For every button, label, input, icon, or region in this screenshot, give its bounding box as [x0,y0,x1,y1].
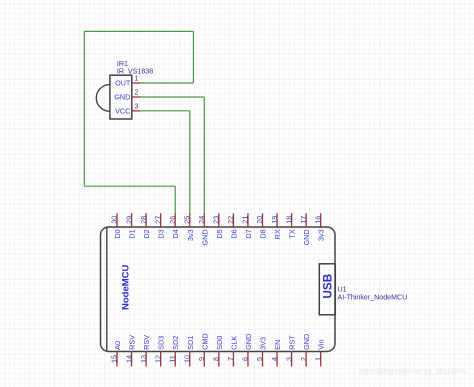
svg-text:1: 1 [313,357,322,361]
svg-text:17: 17 [299,216,308,224]
svg-text:3v3: 3v3 [317,229,326,241]
svg-text:2: 2 [135,90,139,97]
svg-text:11: 11 [168,355,177,362]
svg-text:U1: U1 [338,286,347,294]
svg-text:D8: D8 [259,229,268,238]
svg-text:2: 2 [299,357,308,361]
wire VCC segment (140,110.8)-(189.8,110.8) [140,110,190,112]
svg-text:OUT: OUT [115,79,131,88]
svg-text:9: 9 [197,357,206,361]
svg-text:https://blog.csdn.net/qq_38113: https://blog.csdn.net/qq_38113006 [359,369,466,376]
wire OUT segment (84.3,31.4)-(84.3,186.2) [83,31,85,186]
svg-text:CMD: CMD [200,333,209,350]
svg-text:GND: GND [244,334,253,350]
svg-text:5: 5 [255,357,264,361]
U1 pin 11 (SD2) bottom [168,336,180,367]
svg-text:D1: D1 [128,229,137,238]
svg-text:TX: TX [288,229,297,238]
svg-text:SD1: SD1 [186,336,195,350]
svg-text:SD0: SD0 [215,336,224,350]
svg-text:CLK: CLK [229,336,238,350]
USB connector box [319,264,335,315]
svg-text:8: 8 [212,357,221,361]
svg-text:NodeMCU: NodeMCU [120,264,131,310]
wire OUT segment (193.4,83)-(193.4,31.4) [192,31,194,83]
svg-text:4: 4 [270,357,279,361]
wire GND segment (204.3,97)-(204.3,213.3) to pin GND [203,97,205,213]
svg-text:15: 15 [110,355,119,363]
IR1 pin 3 VCC [115,104,140,116]
U1 pin 29 (D1) top [124,213,136,238]
U1 pin 13 (RSV) bottom [139,335,151,367]
svg-text:29: 29 [124,216,133,224]
U1 pin 23 (D5) top [212,213,224,238]
svg-text:27: 27 [153,216,162,224]
svg-text:EN: EN [273,340,282,350]
U1 pin 17 (GND) top [299,213,311,245]
svg-text:RST: RST [288,335,297,350]
svg-text:20: 20 [255,216,264,224]
svg-text:AI-Thinker_NodeMCU: AI-Thinker_NodeMCU [338,293,408,301]
svg-text:1: 1 [135,76,139,83]
svg-text:GND: GND [302,229,311,245]
svg-text:3: 3 [135,104,139,111]
U1 pin 14 (RSV) bottom [124,335,136,367]
U1 pin 16 (3v3) top [313,213,325,241]
U1 pin 6 (GND) bottom [241,334,253,367]
svg-text:10: 10 [182,355,191,363]
svg-text:13: 13 [139,355,148,363]
svg-text:25: 25 [182,216,191,224]
svg-text:23: 23 [212,216,221,224]
svg-text:3V3: 3V3 [259,337,268,350]
svg-text:22: 22 [226,216,235,224]
svg-text:RSV: RSV [142,335,151,350]
U1 pin 5 (3V3) bottom [255,337,267,367]
U1 pin 2 (GND) bottom [299,334,311,367]
U1 pin 21 (D7) top [241,213,253,238]
svg-text:26: 26 [168,216,177,224]
U1 pin 18 (TX) top [284,213,296,238]
IR receiver IR1 body [110,75,132,119]
svg-text:6: 6 [241,357,250,361]
U1 pin 10 (SD1) bottom [182,336,194,367]
U1 pin 4 (EN) bottom [270,340,282,367]
wire OUT segment (175.2,186.2)-(175.2,213.3) to pin D4 [174,186,176,213]
U1 pin 19 (RX) top [270,213,282,239]
svg-text:RX: RX [273,229,282,239]
U1 pin 25 (3v3) top [182,213,194,241]
svg-text:VCC: VCC [115,106,130,115]
U1 pin 22 (D6) top [226,213,238,238]
wire OUT segment (84.3,186.2)-(175.2,186.2) [84,185,175,187]
svg-text:28: 28 [139,216,148,224]
svg-text:USB: USB [320,274,334,299]
NodeMCU U1 inner left line [106,227,108,351]
svg-text:16: 16 [313,216,322,224]
IR receiver IR1 lens arc [96,85,110,112]
svg-text:14: 14 [124,355,133,363]
svg-text:D5: D5 [215,229,224,238]
svg-text:GND: GND [114,93,130,102]
svg-text:GND: GND [200,229,209,245]
svg-text:3v3: 3v3 [186,229,195,241]
U1 pin 26 (D4) top [168,213,180,238]
U1 pin 24 (GND) top [197,213,209,245]
svg-text:12: 12 [153,355,162,363]
wire GND segment (140,97)-(204.3,97) [140,96,204,98]
svg-text:Vin: Vin [317,339,326,349]
U1 pin 20 (D8) top [255,213,267,238]
svg-text:SD3: SD3 [157,336,166,350]
svg-text:24: 24 [197,216,206,224]
svg-text:RSV: RSV [128,335,137,350]
U1 pin 28 (D2) top [139,213,151,238]
svg-text:30: 30 [110,216,119,224]
U1 pin 27 (D3) top [153,213,165,238]
svg-text:D4: D4 [171,229,180,238]
U1 pin 8 (SD0) bottom [212,336,224,367]
svg-text:A0: A0 [113,341,122,350]
svg-text:19: 19 [270,216,279,224]
svg-text:D0: D0 [113,229,122,238]
U1 pin 15 (A0) bottom [110,341,122,367]
U1 pin 1 (Vin) bottom [313,339,325,366]
U1 pin 12 (SD3) bottom [153,336,165,367]
IR1 pin 2 GND [114,90,140,102]
svg-text:D7: D7 [244,229,253,238]
U1 pin 7 (CLK) bottom [226,336,238,367]
U1 pin 3 (RST) bottom [284,335,296,367]
wire OUT segment (140,83)-(193.4,83) [140,82,193,84]
wire VCC segment (189.8,110.8)-(189.8,213.3) to pin 3v3 [189,111,191,214]
wire OUT segment (193.4,31.4)-(84.3,31.4) [84,30,193,32]
svg-text:GND: GND [302,334,311,350]
svg-text:3: 3 [284,357,293,361]
svg-text:18: 18 [284,216,293,224]
svg-text:7: 7 [226,357,235,361]
svg-text:D3: D3 [157,229,166,238]
svg-text:D6: D6 [229,229,238,238]
svg-text:D2: D2 [142,229,151,238]
U1 pin 30 (D0) top [110,213,122,238]
U1 pin 9 (CMD) bottom [197,333,209,366]
svg-text:SD2: SD2 [171,336,180,350]
svg-text:21: 21 [241,216,250,224]
svg-text:IR_VS1838: IR_VS1838 [117,68,153,76]
IR1 pin 1 OUT [115,76,140,88]
NodeMCU U1 body [101,227,336,352]
